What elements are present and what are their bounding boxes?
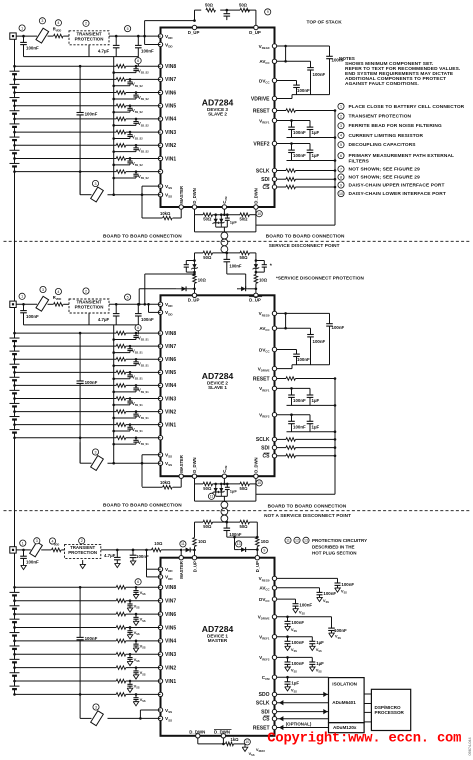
capacitor 1uF VREF1 sec1 bbox=[309, 121, 311, 128]
resistor series VIN2 sec3 bbox=[116, 666, 126, 670]
wire VIN1 row sec2 bbox=[15, 424, 117, 426]
decoupling return bus sec2 bbox=[292, 364, 330, 366]
pin VIN8 sec2 bbox=[158, 331, 162, 335]
ground VSS VIN8 sec3 bbox=[133, 595, 139, 599]
svg-text:SDI: SDI bbox=[261, 445, 270, 451]
note marker 4 sec1 bbox=[55, 20, 61, 26]
pin RESET chip2 bbox=[272, 376, 276, 380]
svg-text:D_DWN: D_DWN bbox=[192, 188, 197, 203]
daisy verticals chip2 bbox=[194, 484, 196, 501]
svg-text:PROTECTION: PROTECTION bbox=[75, 36, 104, 41]
svg-text:100nF: 100nF bbox=[141, 317, 154, 322]
pin VIN5 sec2 bbox=[158, 370, 162, 374]
pin CCM chip3 bbox=[272, 675, 276, 679]
svg-text:CS: CS bbox=[263, 454, 271, 460]
svg-text:VIN7: VIN7 bbox=[165, 344, 176, 350]
pin VIN1 sec2 bbox=[158, 422, 162, 426]
wire ferrite to RVDD sec2 bbox=[48, 303, 54, 305]
capacitor 1uF CCM master bbox=[287, 677, 289, 682]
pin D_DWN-bar bottom-right chip3 bbox=[221, 734, 225, 738]
wire TP to VDD pin sec2 bbox=[109, 303, 161, 305]
svg-text:AGAINST FAULT CONDITIONS.: AGAINST FAULT CONDITIONS. bbox=[345, 81, 419, 87]
wire DVCC sec1 bbox=[277, 80, 297, 82]
resistor series SDI sec2 bbox=[277, 447, 286, 449]
wire cap return VIN8 sec1 bbox=[114, 72, 136, 74]
svg-text:100nF: 100nF bbox=[136, 554, 149, 559]
resistor 50ohm daisy-left chip1 bbox=[203, 213, 213, 217]
svg-text:D_UP: D_UP bbox=[249, 298, 261, 303]
svg-text:SLAVE 2: SLAVE 2 bbox=[208, 112, 227, 117]
pin VIN0 sec3 bbox=[158, 692, 162, 696]
daisy rail sec2 top bbox=[195, 252, 204, 254]
wire VREG0-AVCC tie sec1 bbox=[285, 46, 287, 61]
wire ferrite to RVDD sec3 bbox=[41, 549, 51, 551]
wire SCLK master bbox=[277, 702, 329, 704]
pins VDD section2 bbox=[158, 302, 162, 306]
battery stack sec3 bbox=[14, 553, 16, 587]
svg-text:VIN3: VIN3 bbox=[165, 130, 176, 136]
pin VIN3 sec1 bbox=[158, 130, 162, 134]
ground bus sec1 bbox=[24, 56, 139, 58]
pin VREF2 chip3 bbox=[272, 655, 276, 659]
svg-text:100nF: 100nF bbox=[313, 339, 326, 344]
pin VREF1 chip2 bbox=[272, 386, 276, 390]
battery cell B1_1 bbox=[14, 158, 16, 163]
svg-text:VIN8: VIN8 bbox=[165, 64, 176, 70]
battery cell B2_7 bbox=[14, 346, 16, 351]
resistor series SCLK sec1 bbox=[277, 170, 286, 172]
battery cell B2_3 bbox=[14, 399, 16, 404]
wire cap return VIN3 sec1 bbox=[114, 138, 130, 140]
wire VIN1 row sec3 bbox=[15, 680, 117, 682]
resistor 10kohm MASTER pulldown chip2 bbox=[180, 478, 182, 487]
wire RESET master optional bbox=[277, 727, 329, 729]
resistor series VIN4 sec1 bbox=[116, 117, 126, 121]
battery cell B3_6 bbox=[14, 614, 16, 619]
svg-text:100nF: 100nF bbox=[141, 49, 154, 54]
svg-text:VREF2: VREF2 bbox=[253, 141, 269, 147]
svg-text:VIN3: VIN3 bbox=[165, 396, 176, 402]
resistor 50ohm daisy-right chip1 bbox=[240, 213, 250, 217]
capacitor 100nF VREF2 master bbox=[287, 657, 289, 662]
battery cell B3_7 bbox=[14, 601, 16, 606]
board connector coil sec2-3 bbox=[223, 500, 225, 502]
wire VIN3 row sec3 bbox=[15, 653, 117, 655]
svg-text:10: 10 bbox=[339, 192, 343, 196]
pin VIN7 sec3 bbox=[158, 598, 162, 602]
signal bus to daisy port sec2 bbox=[334, 379, 336, 495]
capacitor 100nF input sec1 bbox=[23, 36, 25, 42]
svg-text:D_DWN: D_DWN bbox=[214, 730, 230, 735]
wire VIN2 row sec3 bbox=[15, 667, 117, 669]
diode daisy right sec2 bbox=[237, 288, 239, 290]
svg-text:VIN4: VIN4 bbox=[165, 117, 176, 123]
bus stub to VIN8 sec2 bbox=[137, 325, 139, 335]
battery cell B2_6 bbox=[14, 359, 16, 364]
capacitor filter VIN3 sec1 bbox=[129, 132, 131, 135]
svg-text:PLACE CLOSE TO BATTERY CELL CO: PLACE CLOSE TO BATTERY CELL CONNECTOR bbox=[349, 104, 465, 110]
capacitor 100nF daisy sec2 bbox=[226, 253, 228, 260]
svg-text:RESET: RESET bbox=[253, 376, 270, 382]
wire VSS upper chip3 bbox=[140, 709, 160, 711]
TP ground stub sec1 bbox=[88, 45, 90, 57]
svg-text:1µF: 1µF bbox=[312, 153, 320, 158]
svg-text:50Ω: 50Ω bbox=[240, 255, 249, 260]
battery cell B2_2 bbox=[14, 412, 16, 417]
resistor series VIN2 sec1 bbox=[116, 143, 126, 147]
wire cap return VIN2 sec2 bbox=[114, 417, 136, 419]
termination network top of stack bbox=[195, 9, 202, 11]
pin MASTER chip1 bbox=[179, 205, 183, 209]
svg-text:11: 11 bbox=[286, 539, 290, 543]
capacitor 100nF DVCC master bbox=[295, 599, 297, 604]
resistor series VIN3 sec2 bbox=[116, 397, 126, 401]
svg-text:50Ω: 50Ω bbox=[205, 3, 214, 8]
daisy chain lower bus chip2 bbox=[194, 478, 196, 484]
resistor series VIN6 sec1 bbox=[116, 91, 126, 95]
ground VSS VIN1 sec3 bbox=[127, 688, 133, 692]
svg-text:D_UP: D_UP bbox=[255, 561, 260, 572]
pin D_UP left chip2 bbox=[192, 293, 196, 297]
svg-text:4: 4 bbox=[340, 134, 342, 138]
resistor 10ohm right sec3 bbox=[256, 522, 258, 537]
capacitor 100nF VREF2 sec1 bbox=[291, 144, 293, 151]
wire VDD2 link sec1 bbox=[144, 36, 146, 44]
svg-text:DECOUPLING CAPACITORS: DECOUPLING CAPACITORS bbox=[349, 142, 417, 148]
pin CCM chip2 bbox=[222, 474, 226, 478]
pin VIN2 sec3 bbox=[158, 665, 162, 669]
ground VSS VIN7 sec3 bbox=[127, 608, 133, 612]
svg-text:10Ω: 10Ω bbox=[261, 539, 270, 544]
wire VIN3 row sec2 bbox=[15, 398, 117, 400]
svg-text:1µF: 1µF bbox=[312, 424, 320, 429]
svg-text:SCLK: SCLK bbox=[256, 437, 270, 443]
pin VIN8 sec3 bbox=[158, 585, 162, 589]
wire VSS lower chip2 with ferrite bbox=[108, 462, 161, 464]
wire VIN4 row sec3 bbox=[15, 640, 117, 642]
capacitor 100nF VREF1 master bbox=[287, 637, 289, 642]
svg-text:10: 10 bbox=[257, 212, 261, 216]
resistor series CS sec2 bbox=[277, 455, 286, 457]
svg-text:2: 2 bbox=[85, 22, 87, 26]
battery cell B1_6 bbox=[14, 93, 16, 98]
note marker 2 sec2 bbox=[83, 288, 89, 294]
svg-text:5: 5 bbox=[127, 27, 129, 31]
transient protection block TP2 bbox=[69, 299, 109, 313]
svg-text:NOTES: NOTES bbox=[339, 56, 355, 61]
svg-text:VIN5: VIN5 bbox=[165, 104, 176, 110]
svg-text:ADuM6401: ADuM6401 bbox=[332, 700, 356, 705]
isolator to dsp wires bbox=[364, 693, 371, 695]
capacitor filter VIN0 sec2 bbox=[135, 438, 137, 441]
note marker 9 top bbox=[265, 9, 271, 15]
battery cell B2_5 bbox=[14, 372, 16, 377]
svg-text:100nF: 100nF bbox=[293, 398, 306, 403]
capacitor 4.7uF sec2 bbox=[115, 304, 117, 313]
capacitor 100nF decoupling sec1 bbox=[137, 36, 139, 45]
capacitor 100nF AVCC sec2 bbox=[310, 328, 312, 334]
capacitor filter VIN4 sec1 bbox=[135, 119, 137, 122]
battery cell B1_3 bbox=[14, 132, 16, 137]
wire RVDD to TP sec1 bbox=[63, 35, 69, 37]
svg-text:VIN1: VIN1 bbox=[165, 156, 176, 162]
wire cap return VIN3 sec2 bbox=[114, 404, 130, 406]
wire VDD drop sec3 bbox=[146, 550, 148, 569]
capacitor 100nF stack sec3 bbox=[77, 636, 84, 638]
wire VIN7 row sec1 bbox=[15, 78, 117, 80]
wire VSS upper chip1 bbox=[142, 185, 161, 187]
svg-text:5: 5 bbox=[127, 295, 129, 299]
pin D_UP left chip3 bbox=[192, 556, 196, 560]
svg-text:VIN6: VIN6 bbox=[165, 90, 176, 96]
pin SCLK chip3 bbox=[272, 701, 276, 705]
wire AVCC sec1 bbox=[277, 60, 311, 62]
svg-text:9: 9 bbox=[340, 183, 342, 187]
note marker 9 sec3 bbox=[261, 547, 267, 553]
capacitor filter VIN5 sec2 bbox=[129, 372, 131, 375]
VREF1 return bus sec1 bbox=[287, 137, 336, 139]
resistor 50ohm daisy-left chip2 bbox=[203, 482, 213, 486]
capacitor 100nF VREF1 sec2 bbox=[291, 388, 293, 395]
wire VDD input sec3 bbox=[16, 549, 31, 551]
note marker 5 sec2 bbox=[125, 294, 131, 300]
svg-text:11: 11 bbox=[181, 542, 185, 546]
pin VIN4 sec2 bbox=[158, 383, 162, 387]
wire VREF2 sec1 bbox=[277, 143, 310, 145]
svg-text:FILTERS: FILTERS bbox=[349, 159, 370, 165]
wire VREF2 master bbox=[277, 656, 313, 658]
svg-text:50Ω: 50Ω bbox=[203, 486, 212, 491]
pin D_DWN bottom-left chip1 bbox=[192, 205, 196, 209]
decoupling return bus sec1 bbox=[292, 94, 330, 96]
capacitor filter VIN7 sec1 bbox=[129, 79, 131, 82]
capacitor 100nF AVCC master bbox=[319, 588, 321, 593]
svg-text:CS: CS bbox=[263, 185, 271, 191]
capacitor filter VIN0 sec3 bbox=[135, 694, 137, 697]
ground VSS VIN6 sec3 bbox=[133, 621, 139, 625]
capacitor filter VIN2 sec3 bbox=[135, 668, 137, 671]
mini rail chip2 bbox=[216, 495, 228, 497]
svg-text:MASTER: MASTER bbox=[179, 561, 184, 579]
pin VIN4 sec3 bbox=[158, 639, 162, 643]
svg-text:3: 3 bbox=[95, 450, 97, 454]
note marker 2 sec3 bbox=[79, 538, 85, 544]
svg-text:BOARD TO BOARD CONNECTION: BOARD TO BOARD CONNECTION bbox=[103, 503, 182, 508]
svg-text:100nF: 100nF bbox=[334, 628, 347, 633]
wire VIN4 row sec2 bbox=[15, 384, 117, 386]
svg-text:100nF: 100nF bbox=[26, 46, 39, 51]
note marker 1 sec1 bbox=[19, 25, 25, 31]
svg-text:3: 3 bbox=[42, 288, 44, 292]
pins VSS sec1 bbox=[158, 184, 162, 188]
svg-text:Copyright:www. eccn. com: Copyright:www. eccn. com bbox=[267, 730, 461, 746]
resistor series SDI sec1 bbox=[277, 178, 286, 180]
capacitor 100nF decoupling sec2 bbox=[137, 304, 139, 313]
wire VREF1 sec2 bbox=[277, 387, 310, 389]
svg-text:SCLK: SCLK bbox=[256, 701, 270, 707]
VREF2 return bus sec2 bbox=[287, 431, 336, 433]
svg-text:10: 10 bbox=[257, 481, 261, 485]
capacitor 100nF VREG0 sec2 bbox=[329, 313, 331, 323]
battery stack sec2 bbox=[14, 308, 16, 333]
resistor series VIN0 sec3 bbox=[116, 693, 126, 697]
battery cell B1_2 bbox=[14, 145, 16, 150]
svg-text:BOARD TO BOARD CONNECTION: BOARD TO BOARD CONNECTION bbox=[268, 503, 347, 508]
pin VDRIVE chip1 bbox=[272, 96, 276, 100]
pin RESET chip3 bbox=[272, 725, 276, 729]
pin VIN7 sec2 bbox=[158, 344, 162, 348]
resistor series VIN1 sec3 bbox=[116, 679, 126, 683]
resistor series SCLK sec2 bbox=[277, 438, 286, 440]
svg-text:100nF: 100nF bbox=[297, 357, 310, 362]
pin D_UP left chip1 bbox=[192, 25, 196, 29]
svg-text:4: 4 bbox=[57, 290, 59, 294]
svg-text:100nF: 100nF bbox=[297, 88, 310, 93]
pin AVCC chip2 bbox=[272, 326, 276, 330]
battery cell B1_5 bbox=[14, 106, 16, 111]
pin D_DWN bottom-left chip3 bbox=[196, 734, 200, 738]
daisy cap rail sec3 bbox=[227, 536, 257, 538]
svg-text:10kΩ: 10kΩ bbox=[160, 211, 171, 216]
svg-text:4: 4 bbox=[52, 539, 54, 543]
battery tap connector J1 bbox=[10, 33, 16, 39]
svg-text:VIN1: VIN1 bbox=[165, 422, 176, 428]
svg-text:BOARD TO BOARD CONNECTION: BOARD TO BOARD CONNECTION bbox=[266, 234, 345, 239]
resistor RVDD sec1 bbox=[54, 34, 64, 38]
pin SCLK chip2 bbox=[272, 437, 276, 441]
resistor RVDD sec2 bbox=[54, 303, 64, 307]
svg-text:AD7284: AD7284 bbox=[202, 98, 234, 108]
resistor series VIN4 sec2 bbox=[116, 384, 126, 388]
board separator dashed line 2 bbox=[4, 510, 471, 512]
protection cluster left sec2 bbox=[194, 253, 196, 261]
capacitor filter VIN1 sec1 bbox=[129, 158, 131, 161]
svg-text:50Ω: 50Ω bbox=[240, 524, 249, 529]
note marker 3 bottom sec3 bbox=[93, 704, 99, 710]
diode D_UP left sec2 bbox=[177, 288, 191, 290]
wire VIN6 row sec3 bbox=[15, 613, 117, 615]
resistor series VIN2 sec2 bbox=[116, 410, 126, 414]
wire VIN4 row sec1 bbox=[15, 118, 117, 120]
wire DVCC master bbox=[277, 598, 296, 600]
note marker 11 chip2 bbox=[208, 493, 214, 499]
wire DVCC sec2 bbox=[277, 349, 297, 351]
resistor 50ohm upper-left sec3 bbox=[203, 520, 213, 524]
svg-text:100nF: 100nF bbox=[341, 582, 354, 587]
ferrite bead FB2 bottom bbox=[91, 456, 104, 471]
resistor 50ohm upper-right sec3 bbox=[240, 520, 250, 524]
wire VIN8 row sec2 bbox=[15, 332, 117, 334]
diode feed right sec3 bbox=[235, 549, 239, 551]
resistor series VIN6 sec3 bbox=[116, 612, 126, 616]
wire VSS lower chip1 with ferrite bbox=[108, 194, 161, 196]
pin SDI chip2 bbox=[272, 445, 276, 449]
svg-text:VIN5: VIN5 bbox=[165, 370, 176, 376]
pin VIN8 sec1 bbox=[158, 64, 162, 68]
pin CS chip2 bbox=[272, 454, 276, 458]
svg-text:MASTER: MASTER bbox=[179, 455, 184, 473]
isolation block ADuM6401 bbox=[329, 678, 365, 723]
resistor 10ohm feed sec3 bbox=[152, 548, 162, 552]
note marker 3 sec2 bbox=[40, 286, 46, 292]
pin VIN5 sec3 bbox=[158, 625, 162, 629]
note marker 10 chip3 bbox=[244, 739, 250, 745]
pin VIN3 sec2 bbox=[158, 396, 162, 400]
wire VIN8 row sec3 bbox=[15, 586, 117, 588]
svg-text:10Ω: 10Ω bbox=[198, 277, 207, 282]
numbered notes list bbox=[338, 103, 344, 109]
pins VDD section3 bbox=[158, 567, 162, 571]
pin D_UP right chip1 bbox=[254, 25, 258, 29]
note marker 3 sec3 bbox=[34, 538, 40, 544]
pin AVCC chip1 bbox=[272, 59, 276, 63]
pin D_DWN bottom-right chip2 bbox=[254, 474, 258, 478]
svg-text:SDI: SDI bbox=[261, 177, 270, 183]
TP ground sec3 bbox=[82, 560, 84, 564]
capacitor 100nF DVCC sec2 bbox=[296, 350, 298, 355]
pin VIN3 sec3 bbox=[158, 652, 162, 656]
capacitor filter VIN8 sec3 bbox=[135, 587, 137, 590]
capacitor filter VIN4 sec3 bbox=[135, 641, 137, 644]
svg-text:8: 8 bbox=[340, 175, 342, 179]
wire VDD2 link sec3 bbox=[147, 576, 161, 578]
wire cap return VIN1 sec2 bbox=[114, 430, 130, 432]
wire cap return VIN6 sec1 bbox=[114, 98, 136, 100]
wire stack-top to VSS sec2 bbox=[79, 333, 81, 381]
svg-text:SDI: SDI bbox=[261, 709, 270, 715]
resistor 10ohm left sec2 bbox=[193, 274, 197, 283]
note marker 11 sec3 bbox=[180, 541, 186, 547]
wire RVDD to TP sec2 bbox=[63, 303, 69, 305]
svg-text:SERVICE DISCONNECT POINT: SERVICE DISCONNECT POINT bbox=[269, 243, 340, 248]
daisy rail sec3 top bbox=[195, 521, 204, 523]
capacitor 1uF VREF1 master bbox=[311, 637, 313, 642]
ferrite bead FB2 input bbox=[36, 296, 49, 311]
wire VDRIVE sec1 bbox=[277, 98, 292, 100]
pin D_UP right chip2 bbox=[254, 293, 258, 297]
resistor series VIN5 sec3 bbox=[116, 626, 126, 630]
svg-text:D_DWN: D_DWN bbox=[189, 730, 205, 735]
resistor series VIN1 sec2 bbox=[116, 423, 126, 427]
svg-text:D_UP: D_UP bbox=[249, 30, 261, 35]
resistor 50ohm upper-left sec2 bbox=[203, 251, 213, 255]
svg-text:VIN4: VIN4 bbox=[165, 639, 176, 645]
svg-text:ADuM120x: ADuM120x bbox=[333, 725, 357, 730]
pin DVCC chip2 bbox=[272, 347, 276, 351]
wire VIN7 row sec3 bbox=[15, 600, 117, 602]
pin VREG0 chip2 bbox=[272, 311, 276, 315]
wire VREG0 master bbox=[277, 577, 338, 579]
note marker 2 sec1 bbox=[83, 20, 89, 26]
svg-text:50Ω: 50Ω bbox=[203, 524, 212, 529]
svg-text:09674-044: 09674-044 bbox=[468, 737, 472, 755]
wire SDO master bbox=[277, 693, 329, 695]
svg-text:(OPTIONAL): (OPTIONAL) bbox=[286, 721, 312, 726]
wire VREG0 sec2 bbox=[277, 312, 330, 314]
svg-text:VIN1: VIN1 bbox=[165, 679, 176, 685]
svg-text:PRIMARY MEASUREMENT PATH EXTER: PRIMARY MEASUREMENT PATH EXTERNAL bbox=[349, 153, 455, 159]
battery cell B2_1 bbox=[14, 425, 16, 430]
svg-text:1: 1 bbox=[340, 105, 342, 109]
pin VIN6 sec3 bbox=[158, 612, 162, 616]
svg-text:10Ω: 10Ω bbox=[198, 539, 207, 544]
capacitor 1uF VREF1 sec2 bbox=[309, 388, 311, 395]
resistor series VIN7 sec3 bbox=[116, 599, 126, 603]
resistor series RESET sec2 bbox=[277, 378, 286, 380]
wire from VDD2 sec2 upper bbox=[145, 273, 195, 275]
svg-text:6: 6 bbox=[340, 154, 342, 158]
svg-text:11: 11 bbox=[210, 495, 214, 499]
